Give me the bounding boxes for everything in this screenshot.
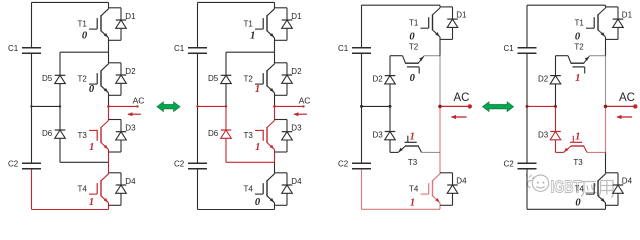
svg-text:1: 1 [575, 131, 580, 142]
svg-text:AC: AC [133, 95, 145, 105]
svg-text:D6: D6 [208, 129, 219, 138]
svg-text:D3: D3 [373, 130, 384, 139]
svg-text:T3: T3 [244, 131, 254, 140]
svg-text:1: 1 [575, 73, 580, 84]
svg-text:C2: C2 [8, 159, 19, 168]
svg-text:1: 1 [255, 84, 260, 95]
svg-text:T2: T2 [244, 75, 254, 84]
svg-text:T1: T1 [409, 19, 419, 28]
svg-text:T3: T3 [408, 158, 418, 167]
svg-text:1: 1 [410, 131, 415, 142]
svg-text:C1: C1 [174, 44, 185, 53]
svg-text:D3: D3 [291, 124, 302, 133]
svg-text:0: 0 [409, 32, 415, 43]
svg-text:0: 0 [410, 73, 416, 84]
svg-text:AC: AC [454, 92, 470, 104]
svg-text:D2: D2 [373, 74, 384, 83]
svg-text:0: 0 [89, 84, 95, 95]
svg-text:C2: C2 [504, 159, 515, 168]
svg-text:C1: C1 [504, 44, 515, 53]
svg-text:T1: T1 [575, 19, 585, 28]
svg-text:T4: T4 [575, 185, 585, 194]
svg-text:D1: D1 [456, 10, 467, 19]
svg-text:1: 1 [255, 142, 260, 153]
svg-text:D2: D2 [125, 67, 136, 76]
svg-text:0: 0 [255, 197, 261, 208]
svg-text:D4: D4 [291, 177, 302, 186]
svg-text:T4: T4 [409, 185, 419, 194]
svg-text:T2: T2 [574, 42, 584, 51]
svg-text:C2: C2 [338, 159, 349, 168]
svg-text:T3: T3 [573, 158, 583, 167]
svg-text:D5: D5 [42, 74, 53, 83]
svg-text:D1: D1 [291, 12, 302, 21]
svg-text:AC: AC [619, 92, 635, 104]
svg-text:D5: D5 [208, 74, 219, 83]
svg-text:T4: T4 [244, 185, 254, 194]
svg-text:D3: D3 [538, 130, 549, 139]
svg-text:T4: T4 [78, 185, 88, 194]
svg-text:C2: C2 [174, 159, 185, 168]
svg-text:T2: T2 [78, 75, 88, 84]
svg-text:D4: D4 [456, 176, 467, 185]
svg-text:0: 0 [82, 30, 88, 41]
svg-text:C1: C1 [338, 44, 349, 53]
svg-text:D6: D6 [42, 129, 53, 138]
svg-text:T3: T3 [78, 131, 88, 140]
svg-text:D4: D4 [622, 176, 633, 185]
svg-text:AC: AC [299, 95, 311, 105]
svg-text:D2: D2 [538, 74, 549, 83]
svg-text:D1: D1 [125, 12, 136, 21]
svg-text:T1: T1 [78, 20, 88, 29]
svg-text:1: 1 [410, 197, 415, 208]
svg-text:1: 1 [250, 30, 255, 41]
svg-text:D1: D1 [622, 10, 633, 19]
svg-text:1: 1 [89, 197, 94, 208]
svg-text:C1: C1 [8, 44, 19, 53]
svg-text:0: 0 [575, 32, 581, 43]
svg-text:D4: D4 [125, 177, 136, 186]
svg-text:0: 0 [575, 197, 581, 208]
svg-text:1: 1 [89, 142, 94, 153]
svg-text:D2: D2 [291, 67, 302, 76]
svg-text:T1: T1 [244, 20, 254, 29]
svg-text:T2: T2 [409, 42, 419, 51]
svg-text:D3: D3 [125, 124, 136, 133]
